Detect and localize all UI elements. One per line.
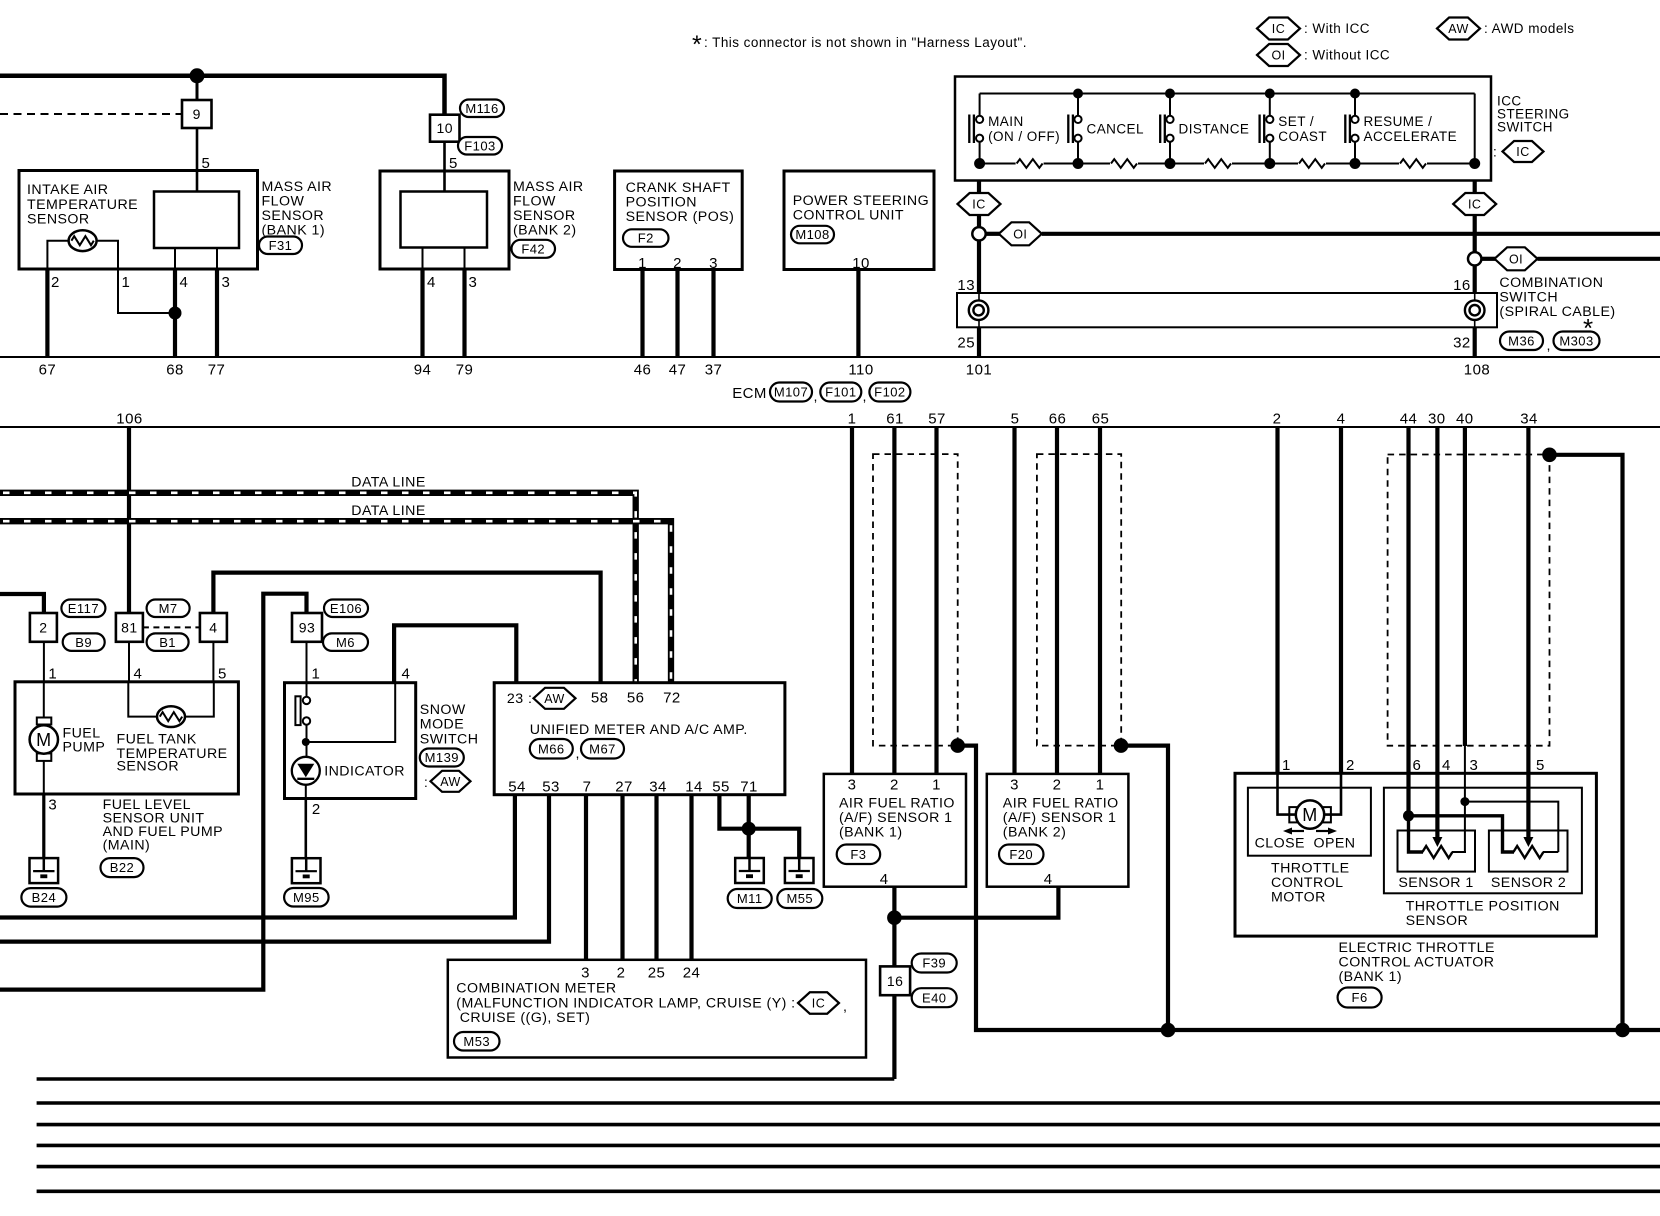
svg-text:2: 2 [673,255,682,272]
spiral cable symbol right [1465,300,1485,320]
sensor 2 resistive element [1513,846,1543,858]
ground M11 [735,858,764,883]
ground M95 [292,858,321,883]
svg-text:(MALFUNCTION INDICATOR LAMP, C: (MALFUNCTION INDICATOR LAMP, CRUISE (Y) … [456,995,795,1011]
svg-text:M139: M139 [425,750,459,765]
fuel tank temperature sensor thermistor [128,682,157,717]
svg-text:COMBINATION METER: COMBINATION METER [456,981,616,997]
svg-text:68: 68 [166,362,184,379]
svg-text:F2: F2 [638,231,654,246]
svg-text:E106: E106 [330,601,362,616]
connector oval F20 [999,845,1044,865]
svg-text:M6: M6 [336,635,355,650]
svg-text:25: 25 [648,965,666,982]
node TPS pin 6 [1403,810,1414,821]
OI hexagon right [1495,247,1538,270]
ICC right bus tie wire [1474,94,1476,164]
node drain 2 to ground bus [1161,1023,1176,1038]
svg-text:SWITCH: SWITCH [1497,120,1553,135]
node TPS pin 3 [1460,797,1469,806]
ICC top bus wire [980,93,1475,95]
switch SET/COAST contact bars [1258,115,1260,144]
svg-text:COAST: COAST [1278,129,1327,144]
node top bus at SET/COAST [1265,89,1275,99]
wire ICC switch right drop to IC [1473,181,1477,253]
svg-text:IC: IC [1468,198,1481,212]
svg-text:SWITCH: SWITCH [420,731,479,747]
svg-text:B24: B24 [32,890,56,905]
svg-text:94: 94 [414,362,432,379]
svg-text:9: 9 [193,106,201,122]
svg-text:7: 7 [583,779,592,796]
svg-text:46: 46 [634,362,652,379]
svg-text:1: 1 [848,411,857,428]
wire shield 2 drain [1121,746,1168,1030]
svg-text:1: 1 [122,274,131,291]
wire unified 7 to combination meter 3 [584,795,588,960]
switch DISTANCE contact bars [1159,115,1161,144]
svg-text:71: 71 [740,779,758,796]
svg-text:61: 61 [886,411,904,428]
svg-text:79: 79 [456,362,474,379]
legend AW hexagon : AWD models [1437,18,1480,40]
svg-text:PUMP: PUMP [63,740,106,756]
switch CANCEL lower contact [1074,135,1081,142]
svg-text:*: * [692,31,702,59]
splice circle left (with/without ICC) [972,227,985,240]
wire MAF1 stub pin3 [216,248,218,269]
svg-text:4: 4 [427,274,436,291]
svg-text:AW: AW [1448,22,1469,36]
wire without-ICC to right edge [1042,232,1660,236]
air fuel ratio sensor 1 bank 2 box [987,774,1129,887]
wire ICC switch left drop to IC [977,181,981,228]
IC hexagon in combination meter [798,992,839,1014]
sensor 1 wiper arrow [1432,837,1442,847]
connector oval F2 [623,229,669,247]
svg-text:32: 32 [1453,335,1471,352]
svg-text:72: 72 [663,690,681,707]
motor direction arrows [1290,830,1304,832]
svg-text:30: 30 [1428,411,1446,428]
svg-text:IC: IC [1272,22,1285,36]
ICC steering switch box [955,77,1491,181]
svg-text:56: 56 [627,690,645,707]
throttle motor symbol [1289,807,1301,822]
svg-text:23 :: 23 : [507,691,532,707]
svg-text:25: 25 [957,335,975,352]
connector box 81 [116,613,143,642]
wire 47 to ECM [675,270,679,358]
node bottom bus at MAIN (ON/OFF) [974,158,985,169]
wire unified 14 to combination meter 24 [689,795,693,960]
svg-text:OI: OI [1013,227,1027,241]
ECM top pin row line [0,356,1660,358]
svg-text:M: M [1302,805,1317,825]
svg-text:(BANK 2): (BANK 2) [1003,825,1067,841]
wire splice to OI hexagon left [986,232,1000,236]
svg-text:1: 1 [932,777,941,794]
svg-text:2: 2 [890,777,899,794]
svg-text:53: 53 [542,779,560,796]
svg-text:34: 34 [1520,411,1538,428]
wire unified 27 to combination meter 2 [620,795,624,960]
ground M55 [785,858,814,883]
svg-text:37: 37 [705,362,723,379]
spiral cable symbol left [969,300,989,320]
air fuel ratio sensor 1 bank 1 box [824,774,966,887]
connector oval M116 [460,100,504,118]
svg-text:(BANK 1): (BANK 1) [839,825,903,841]
svg-text:F3: F3 [850,847,866,862]
dashed shield box 3 [1388,455,1550,746]
connector oval M67 [581,739,624,759]
svg-text:MODE: MODE [420,717,464,733]
wire connector 81 to fuel tank sensor pin 4 [128,642,130,682]
connector oval M6 [323,633,368,651]
svg-text:B22: B22 [110,860,134,875]
power steering control unit box [784,171,934,270]
switch MAIN (ON/OFF) lower contact [976,135,983,142]
wire ECM 106 to connector 81 [127,427,131,613]
connector oval F42 [512,240,556,258]
svg-text:OPEN: OPEN [1314,836,1356,852]
svg-text:101: 101 [966,362,992,379]
svg-text:DISTANCE: DISTANCE [1179,122,1250,137]
wire switch node to pin 4 [306,683,395,742]
wire ECM 4 to throttle motor pin 2 [1339,427,1343,773]
svg-text:F103: F103 [464,138,495,153]
svg-text:M7: M7 [159,601,178,616]
svg-text:M11: M11 [737,891,763,906]
connector oval M108 [791,226,834,244]
svg-text:SENSOR: SENSOR [117,759,180,775]
wire shield 1 drain [958,746,1660,1030]
svg-text:M107: M107 [774,385,808,400]
svg-text:67: 67 [39,362,57,379]
wire ECM 30 to TPS pin 4 wiper [1435,427,1439,838]
wire ECM 2 to throttle motor pin 1 [1275,427,1279,773]
wire 79 to ECM [462,269,466,357]
svg-text:SENSOR 2: SENSOR 2 [1491,875,1566,891]
sensor 2 wiper arrow [1523,837,1533,847]
ground bus line 6 [37,1190,1660,1194]
ICC bottom bus wire segments with resistors [980,163,1016,165]
node bottom bus at RESUME/ACCELERATE [1350,158,1361,169]
switch MAIN (ON/OFF) upper contact [979,94,981,116]
connector oval B9 [63,633,105,651]
svg-text:IC: IC [972,198,985,212]
switch RESUME/ACCELERATE upper contact [1354,94,1356,116]
wire shield 3 drain [1550,455,1623,1030]
svg-text:CRUISE ((G), SET): CRUISE ((G), SET) [460,1010,591,1026]
svg-text:ECM: ECM [732,385,767,402]
svg-text:M67: M67 [589,741,616,756]
switch SET/COAST lower contact [1266,135,1273,142]
svg-text:(BANK 2): (BANK 2) [513,223,577,239]
switch CANCEL contact bars [1067,115,1069,144]
connector box 4 [200,613,227,642]
IC hexagon right [1453,193,1496,215]
wire pin3 jog to sensor2 right end [1465,802,1558,852]
svg-text:5: 5 [449,155,458,172]
node AF pin4 splice [887,910,902,925]
svg-text:108: 108 [1464,362,1490,379]
electric throttle control actuator box [1235,773,1596,936]
svg-text:10: 10 [852,255,870,272]
fuel level sensor unit box [15,682,238,794]
switch RESUME/ACCELERATE contact bars [1344,115,1346,144]
wire junction to connector 9 [196,76,199,100]
wire 94 to ECM [420,269,424,357]
svg-text:2: 2 [1273,411,1282,428]
svg-text:77: 77 [208,362,226,379]
wire 46 to ECM [640,270,644,358]
svg-text:INDICATOR: INDICATOR [324,764,405,780]
svg-text:4: 4 [209,619,217,635]
svg-text:IC: IC [1516,145,1529,159]
wire connector 93 to snow mode switch pin 1 [306,642,308,683]
connector box 16 [880,966,910,995]
node drain 3 to ground bus [1615,1023,1630,1038]
svg-text:F6: F6 [1352,990,1368,1005]
wire splice to ground M55 [749,829,800,858]
svg-text:3: 3 [1010,777,1019,794]
wire connector 2 to fuel pump pin 1 [43,642,45,682]
svg-text:3: 3 [469,274,478,291]
svg-text:SENSOR: SENSOR [1406,913,1469,929]
connector oval F103 [458,137,502,155]
OI hexagon left [999,222,1042,245]
connector oval E106 [324,600,368,618]
svg-text:: Without ICC: : Without ICC [1304,48,1390,63]
svg-text:2: 2 [312,801,321,818]
svg-text:3: 3 [581,965,590,982]
svg-text:M53: M53 [463,1034,490,1049]
wire indicator to ground M95 [305,785,307,799]
node ground splice [742,822,756,836]
svg-text:65: 65 [1092,411,1110,428]
wire splice to OI hexagon right [1481,257,1496,261]
svg-text:27: 27 [615,779,633,796]
svg-text:3: 3 [222,274,231,291]
wire ECM 66 to AF2 pin 2 [1055,427,1059,774]
connector oval M95 [284,888,329,907]
svg-text:44: 44 [1400,411,1418,428]
wire ECM 5 to AF2 pin 3 [1012,427,1016,774]
connector oval F31 [259,237,302,255]
svg-text:F39: F39 [922,956,946,971]
connector oval E40 [912,988,957,1007]
svg-text:CONTROL UNIT: CONTROL UNIT [793,208,904,224]
wire ECM 44 to TPS pin 6 [1406,427,1410,816]
svg-text:CANCEL: CANCEL [1087,122,1145,137]
dashed shield box 2 [1037,454,1121,745]
svg-text:58: 58 [591,690,609,707]
node shield 1 drain [950,738,965,753]
wire connector 4 to fuel tank sensor pin 5 [212,642,214,682]
connector oval M53 [454,1032,500,1051]
wire MAF1 stub pin4 [174,248,176,269]
svg-text:TEMPERATURE: TEMPERATURE [27,197,138,213]
svg-text:1: 1 [1282,757,1291,774]
svg-text:3: 3 [709,255,718,272]
wire unified 55 to ground splice [719,795,748,829]
svg-text:SET /: SET / [1278,114,1314,129]
svg-text:E117: E117 [68,601,99,616]
switch DISTANCE upper contact [1169,94,1171,116]
ground bus line 3 [37,1123,1660,1127]
svg-text:MOTOR: MOTOR [1271,890,1326,906]
svg-text:40: 40 [1456,411,1474,428]
connector oval E117 [61,600,105,618]
wire 77 to ECM [215,269,219,357]
dashed shield box 1 [873,454,958,745]
wire unified 53 to off-page left [0,795,549,942]
IC hexagon left [958,193,1001,215]
wire ECM 65 to AF2 pin 1 [1098,427,1102,774]
svg-text:E40: E40 [922,990,946,1005]
connector oval B1 [147,633,189,651]
svg-text:OI: OI [1509,252,1523,266]
svg-text:,: , [576,746,580,762]
svg-text:(MAIN): (MAIN) [103,838,151,854]
wire MAF2 stub pin3 [464,248,466,270]
svg-text:(BANK 1): (BANK 1) [1339,969,1403,985]
wire pin1 to motor [1278,773,1297,814]
wire splice down to spiral cable pin 13 [977,241,981,294]
switch CANCEL upper contact [1077,94,1079,116]
switch SET/COAST upper contact [1269,94,1271,116]
wire ECM 61 to AF1 pin 2 [892,427,896,774]
node bottom bus at DISTANCE [1165,158,1176,169]
wire splice down to spiral cable pin 16 [1473,266,1477,294]
svg-text:: With ICC: : With ICC [1304,21,1370,36]
svg-text:16: 16 [887,973,903,989]
svg-text:MAIN: MAIN [988,114,1024,129]
dashed line to connector 9 [0,113,182,115]
svg-text:UNIFIED METER AND A/C AMP.: UNIFIED METER AND A/C AMP. [530,722,748,738]
svg-text:66: 66 [1049,411,1067,428]
svg-text:16: 16 [1453,277,1471,294]
svg-text:M116: M116 [465,101,498,116]
connector oval F3 [837,845,881,865]
node junction on top feed [190,68,205,83]
combination switch (spiral cable) box [957,293,1497,327]
svg-text:DATA LINE: DATA LINE [351,503,425,519]
wire AF2 pin 4 to splice [894,887,1058,918]
sensor 2 sub-box [1489,831,1568,872]
wire ECM 57 to AF1 pin 1 [934,427,938,774]
node bottom bus at CANCEL [1073,158,1084,169]
svg-text:F101: F101 [825,385,856,400]
snow switch contact bar [295,696,300,725]
connector oval M55 [777,889,822,908]
intake air temperature sensor / MAF bank1 outer box [19,171,258,270]
svg-text:5: 5 [1011,411,1020,428]
svg-text:13: 13 [957,277,975,294]
connector oval M139 [420,749,464,767]
wire unified 34 to combination meter 25 [654,795,658,960]
wire connector 10 to MAF bank2, pin 5 [443,142,446,192]
snow mode switch box [285,683,416,799]
svg-text:1: 1 [638,255,647,272]
svg-text:2: 2 [51,274,60,291]
wire pin2 to motor [1324,773,1341,814]
svg-text:(ON / OFF): (ON / OFF) [988,129,1060,144]
svg-text:4: 4 [180,274,189,291]
wire connector 9 to MAF bank1, pin 5 [196,128,199,192]
switch DISTANCE lower contact [1166,135,1173,142]
wire pin6 jog to sensor2 element [1409,816,1515,852]
wire connector 16 to ground bus line [892,995,896,1079]
wire ECM 40 to TPS pin 3 [1463,427,1467,746]
combination meter box [448,960,866,1058]
wire unified 54 to off-page left [0,795,515,918]
MAF bank2 outer box [380,171,509,269]
svg-text:RESUME /: RESUME / [1364,114,1433,129]
ground B24 [30,858,59,883]
connector oval B22 [101,858,144,877]
wire pin3 to sensor1 right end [1464,802,1466,852]
svg-text:M303: M303 [1559,333,1593,348]
svg-text:,: , [863,389,867,405]
node shield 2 drain [1114,738,1129,753]
svg-text:,: , [1547,338,1551,354]
svg-text:AW: AW [544,692,565,706]
node bottom bus at SET/COAST [1264,158,1275,169]
wire 110 to ECM [856,270,860,358]
svg-text:SENSOR: SENSOR [27,212,90,228]
node top bus at DISTANCE [1165,89,1175,99]
connector oval M36 [1500,332,1543,351]
wire thermistor right leg to node [96,241,175,313]
svg-text:M: M [36,730,51,750]
MAF bank2 inner box [401,192,488,248]
svg-text:6: 6 [1413,757,1422,774]
svg-text:F31: F31 [269,238,293,253]
connector box 93 [292,613,322,642]
wire 37 to ECM [711,270,715,358]
legend OI hexagon : Without ICC [1257,44,1300,66]
svg-text:,: , [814,389,818,405]
svg-text:4: 4 [1442,757,1451,774]
wire thermistor left leg [47,241,68,269]
indicator LED [292,757,320,785]
wire MAF2 stub pin4 [422,248,424,270]
node bottom bus right end [1469,158,1480,169]
switch MAIN (ON/OFF) contact bars [968,115,970,144]
wire ECM 34 to TPS pin 5 wiper [1526,427,1530,838]
svg-text:4: 4 [1337,411,1346,428]
ground bus line 5 [37,1165,1660,1169]
sensor 1 resistive element [1422,846,1452,858]
connector box 2 [30,613,57,642]
wire connector 4 up to unified meter pin 58 [213,573,600,682]
svg-text:57: 57 [928,411,946,428]
splice circle right [1468,252,1481,265]
svg-text:IC: IC [812,997,825,1011]
svg-text::: : [424,775,428,790]
svg-text:M66: M66 [538,741,565,756]
svg-text:M36: M36 [1508,333,1535,348]
svg-text:93: 93 [299,619,315,635]
svg-text:DATA LINE: DATA LINE [351,475,425,491]
connector oval M11 [728,889,772,908]
svg-text:4: 4 [1044,871,1053,888]
ground bus line 4 [37,1144,1660,1148]
wire ECM 1 to AF1 pin 3 [850,427,854,774]
